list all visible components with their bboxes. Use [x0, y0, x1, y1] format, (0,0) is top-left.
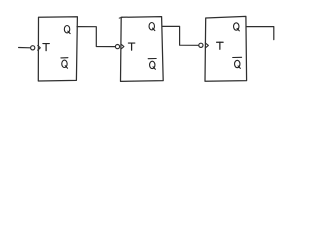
U3 clock bubble — [199, 43, 203, 47]
U3 pin label Q-bar — [233, 57, 242, 68]
T flip-flop U2 (box) — [119, 17, 163, 82]
U1 clock edge-trigger wedge — [38, 45, 41, 50]
T flip-flop U1 (box) — [38, 17, 77, 81]
U1 pin label T — [43, 44, 49, 51]
U2 clock bubble — [115, 45, 119, 49]
U1 pin label Q — [64, 26, 70, 34]
U1 pin label Q-bar — [61, 58, 68, 68]
U3 clock edge-trigger wedge — [205, 43, 208, 48]
U2 pin label Q-bar — [148, 59, 156, 70]
U2 clock edge-trigger wedge — [121, 44, 124, 49]
U3 pin label T — [217, 42, 224, 49]
wire: U1 Q output to U2 T input — [77, 27, 115, 47]
wire: U3 Q output (final output hook) — [246, 27, 274, 40]
U2 pin label Q — [149, 23, 155, 31]
U2 pin label T — [128, 43, 134, 50]
wire: clock input to U1 — [19, 47, 31, 49]
wire: U2 Q output to U3 T input — [162, 26, 198, 45]
U1 clock bubble — [31, 46, 35, 50]
U3 pin label Q — [234, 23, 240, 31]
T flip-flop U3 (box) — [205, 16, 247, 81]
